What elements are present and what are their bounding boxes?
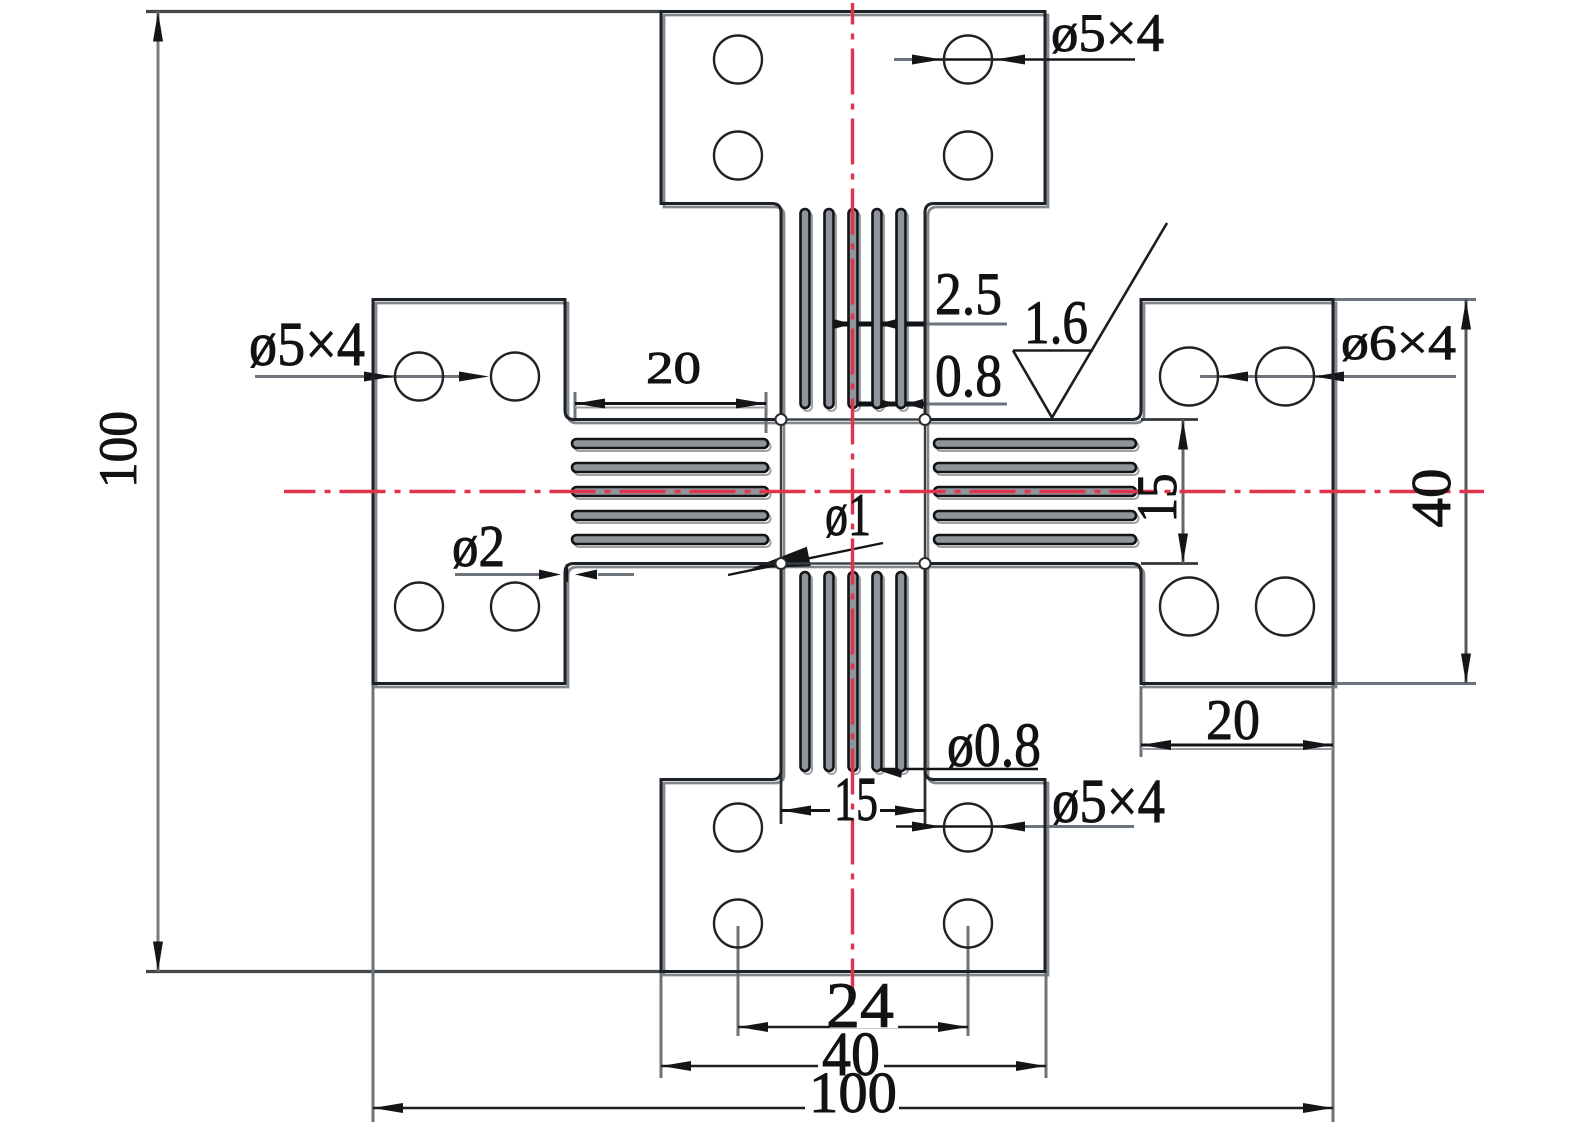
svg-text:40: 40 (1401, 469, 1463, 528)
svg-text:15: 15 (1126, 474, 1189, 523)
svg-text:0.8: 0.8 (935, 343, 1002, 409)
svg-text:ø6×4: ø6×4 (1341, 314, 1456, 370)
svg-text:ø5×4: ø5×4 (1052, 768, 1165, 836)
svg-text:ø0.8: ø0.8 (947, 712, 1041, 780)
svg-text:100: 100 (809, 1060, 897, 1125)
svg-text:2.5: 2.5 (935, 261, 1002, 327)
svg-text:15: 15 (834, 766, 878, 834)
svg-text:ø1: ø1 (825, 482, 871, 548)
svg-text:100: 100 (88, 411, 148, 488)
svg-text:20: 20 (646, 342, 701, 393)
svg-text:ø5×4: ø5×4 (249, 311, 365, 379)
svg-text:ø5×4: ø5×4 (1051, 3, 1164, 63)
svg-text:1.6: 1.6 (1024, 290, 1088, 357)
svg-text:ø2: ø2 (452, 513, 505, 579)
svg-text:20: 20 (1206, 689, 1260, 752)
